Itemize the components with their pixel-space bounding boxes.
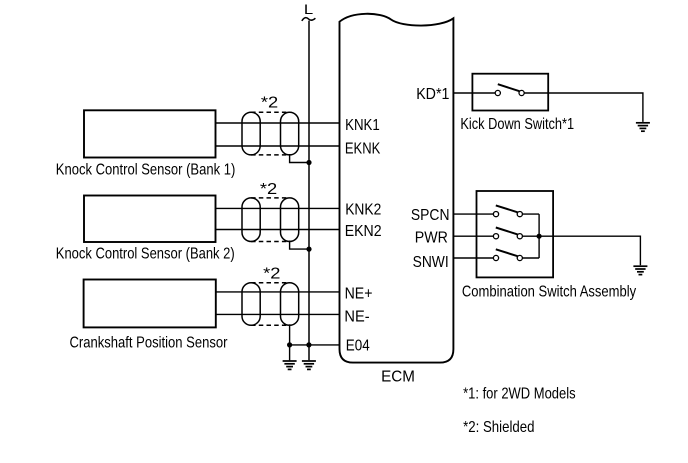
combination switch assembly box [477, 191, 554, 277]
svg-text:Knock Control Sensor (Bank 2): Knock Control Sensor (Bank 2) [56, 245, 235, 262]
kick down switch contact right [519, 90, 524, 95]
svg-text:*2: *2 [261, 95, 278, 112]
svg-text:PWR: PWR [415, 230, 448, 247]
wire SNWI to switch [453, 257, 493, 259]
svg-text:Combination Switch Assembly: Combination Switch Assembly [462, 283, 636, 300]
shield symbol crankshaft sensor [242, 283, 299, 326]
combination switch SNWI contact right [517, 255, 522, 260]
kick down switch contact left [495, 90, 500, 95]
svg-text:*2: *2 [263, 266, 280, 283]
wire NE+ [216, 291, 340, 293]
break symbol at top of wire L [302, 18, 316, 21]
wire connector vertical [538, 214, 540, 258]
junction connector PWR [537, 234, 542, 239]
wire shield 3 drain to ground [289, 324, 291, 360]
svg-text:Kick Down Switch*1: Kick Down Switch*1 [460, 116, 574, 133]
ground for kick down switch [636, 123, 650, 131]
wire L vertical bus [308, 21, 310, 361]
svg-text:Crankshaft Position Sensor: Crankshaft Position Sensor [70, 335, 229, 352]
combination switch SPCN contact left [493, 212, 498, 217]
svg-text:L: L [304, 1, 314, 17]
knock control sensor bank 1 box [84, 110, 216, 157]
ground under wire L [302, 361, 316, 369]
wire shield 1 drain [290, 154, 309, 163]
wire PWR to switch [453, 235, 493, 237]
knock control sensor bank 2 box [84, 196, 216, 243]
svg-text:NE+: NE+ [345, 286, 373, 303]
svg-text:SNWI: SNWI [413, 254, 449, 271]
kick down switch box [472, 74, 548, 111]
svg-text:NE-: NE- [344, 309, 369, 326]
combination switch PWR contact left [493, 234, 498, 239]
wire KNK1 [216, 122, 340, 124]
shield symbol knock sensor 1 [242, 112, 299, 155]
wire PWR switch to ground [522, 236, 640, 265]
junction L E04 [306, 342, 311, 347]
svg-text:SPCN: SPCN [411, 207, 450, 224]
wire shield 2 drain [290, 241, 309, 250]
combination switch SPCN contact right [517, 212, 522, 217]
shield symbol knock sensor 2 [242, 198, 299, 242]
junction drain E04 [287, 342, 292, 347]
wire NE- [216, 313, 340, 315]
svg-text:*2: *2 [260, 181, 277, 198]
junction shield 2 to L [306, 247, 311, 252]
combination switch PWR contact right [517, 234, 522, 239]
svg-text:ECM: ECM [381, 368, 415, 385]
wire SNWI switch to connector [522, 257, 539, 259]
wire EKN2 [216, 229, 340, 231]
wire KNK2 [216, 207, 340, 209]
svg-text:KNK2: KNK2 [345, 201, 381, 218]
ECM box outline [340, 14, 454, 363]
svg-text:E04: E04 [346, 338, 370, 355]
svg-text:KD*1: KD*1 [416, 86, 449, 103]
svg-text:Knock Control Sensor (Bank 1): Knock Control Sensor (Bank 1) [56, 162, 236, 179]
wire E04 [290, 344, 340, 346]
wire KD to switch [453, 92, 495, 94]
wire SPCN switch to connector [522, 213, 539, 215]
svg-text:*1: for 2WD Models: *1: for 2WD Models [463, 385, 575, 402]
svg-text:KNK1: KNK1 [345, 117, 380, 134]
svg-text:*2: Shielded: *2: Shielded [463, 419, 534, 436]
ground under shield drain [283, 361, 297, 369]
crankshaft position sensor box [84, 280, 216, 328]
svg-text:EKN2: EKN2 [345, 223, 382, 240]
svg-text:EKNK: EKNK [345, 141, 381, 158]
wire SPCN to switch [453, 213, 493, 215]
combination switch SPCN blade [496, 205, 518, 212]
combination switch SNWI contact left [493, 255, 498, 260]
combination switch SNWI blade [496, 249, 518, 256]
junction shield 1 to L [306, 160, 311, 165]
wire kick down switch to ground [524, 93, 643, 122]
wire EKNK [216, 145, 340, 147]
ground for combination switch [633, 266, 647, 274]
combination switch PWR blade [496, 228, 518, 235]
kick down switch blade [498, 84, 520, 91]
